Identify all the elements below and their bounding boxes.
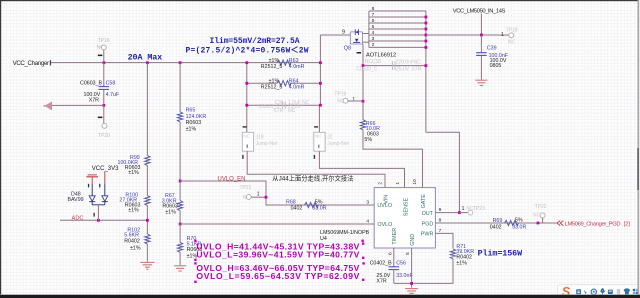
svg-text:R68: R68: [286, 199, 296, 205]
svg-text:Ilim=55mV/2mR=27.5A: Ilim=55mV/2mR=27.5A: [210, 37, 300, 46]
svg-text:8: 8: [372, 6, 375, 12]
toolbar icon: menu grid: [633, 289, 638, 294]
svg-text:R63: R63: [289, 58, 299, 64]
ground (C56/GND): [405, 289, 418, 294]
svg-text:0402: 0402: [291, 206, 303, 212]
svg-text:Plim=156W: Plim=156W: [478, 249, 523, 259]
svg-text:5: 5: [405, 252, 411, 255]
op-amp/controller U4 LM5069MM-1/NOPB: [320, 179, 459, 255]
svg-text:33.0R: 33.0R: [312, 206, 326, 212]
svg-text:LM5069MM-1/NOPB: LM5069MM-1/NOPB: [320, 230, 370, 236]
svg-text:C38: C38: [372, 59, 381, 65]
node: junction R63 left: [245, 61, 248, 64]
svg-text:1: 1: [257, 191, 260, 197]
wire: gate-source row (C38 site): [363, 65, 426, 67]
svg-text:X7R: X7R: [376, 278, 386, 284]
svg-text:NC: NC: [243, 134, 250, 139]
resistor R67: [162, 181, 183, 224]
svg-text:LM5069_Changer_PGD: LM5069_Changer_PGD: [565, 221, 621, 227]
wire: Q8 gate lead down: [362, 44, 364, 101]
svg-text:4.7uF: 4.7uF: [106, 92, 120, 98]
svg-text:TP22: TP22: [535, 204, 547, 210]
off-page connector LM5069_Changer_PGD: [557, 221, 630, 228]
node: junction UVLO_EN: [179, 180, 182, 183]
svg-text:P=(27.5/2)^2*4=0.756W＜2W: P=(27.5/2)^2*4=0.756W＜2W: [186, 46, 309, 56]
svg-text:PGD: PGD: [422, 221, 434, 227]
resistor R64 (4.0mR sense): [247, 78, 321, 90]
svg-text:J2: J2: [327, 135, 333, 141]
wire: ladder row pin8: [369, 10, 426, 12]
node: junction R99 top: [146, 61, 149, 64]
svg-text:25.0V: 25.0V: [396, 67, 410, 73]
resistor R102: [124, 227, 150, 261]
resistor R69: [490, 217, 527, 230]
svg-text:SENSE: SENSE: [403, 198, 409, 217]
svg-text:C58: C58: [106, 80, 116, 86]
pin number 1 (J2 inside, rotated): [318, 145, 319, 148]
svg-text:20A Max: 20A Max: [128, 53, 163, 63]
testpoint TP19: [334, 91, 363, 104]
capacitor C36 (NC, grey): [259, 100, 310, 114]
capacitor C56: [370, 248, 414, 284]
svg-text:UVLO: UVLO: [377, 203, 392, 209]
svg-text:NC: NC: [315, 134, 322, 139]
svg-text:OUT: OUT: [422, 211, 434, 217]
svg-text:C0402_B: C0402_B: [370, 261, 393, 267]
pin GND (5): [405, 234, 416, 255]
svg-text:UVLO_L=39.96V~41.59V TYP=40.77: UVLO_L=39.96V~41.59V TYP=40.77V: [196, 250, 359, 260]
testpoint TP16: [97, 38, 110, 63]
node: junction C36 row right: [319, 104, 322, 107]
wire: ladder row pin2: [369, 46, 426, 48]
node: junction ADC/R100-R102: [146, 219, 149, 222]
pin number 1 (Q8 gate, rotated): [357, 52, 361, 54]
svg-text:VCC_3V3: VCC_3V3: [92, 166, 119, 172]
node: junction VCC_LM5050/C39: [480, 34, 483, 37]
toolbar icon: skin shirt: [624, 288, 631, 294]
ground (R102): [140, 262, 154, 269]
wire: R66 to GATE: [363, 130, 423, 188]
svg-text:9: 9: [342, 30, 345, 36]
svg-text:1: 1: [352, 97, 355, 103]
wire: ladder row pin5: [369, 28, 426, 30]
svg-text:0402: 0402: [490, 224, 502, 230]
pin number 2 (J2 top, rotated): [314, 126, 318, 127]
svg-text:4.0mR: 4.0mR: [289, 64, 305, 70]
pin PGD (8): [422, 218, 442, 228]
svg-text:10: 10: [412, 179, 418, 185]
svg-text:±1%: ±1%: [186, 127, 197, 133]
capacitor C58: [80, 63, 120, 105]
node: junction TP19/R66: [362, 100, 365, 103]
wire: R71 bottom to gnd row: [394, 259, 453, 283]
svg-text:33.0R: 33.0R: [512, 224, 526, 230]
power port arrow (left): [45, 102, 52, 110]
wire: ladder left rail: [368, 11, 370, 47]
svg-text:124.0KR: 124.0KR: [186, 114, 207, 120]
svg-text:J18: J18: [256, 135, 264, 141]
node: junction C36 row left: [245, 104, 248, 107]
svg-text:2: 2: [378, 182, 384, 185]
svg-text:1: 1: [395, 182, 401, 185]
svg-text:±1%: ±1%: [456, 260, 467, 266]
svg-text:OVLO: OVLO: [377, 222, 392, 228]
resistor R99: [118, 63, 151, 195]
node: junction OUT/ladder: [458, 211, 461, 214]
node: junction R64 right: [319, 82, 322, 85]
wire: main VCC_Changer rail y=62.6: [51, 62, 321, 64]
pin SENSE (1): [395, 182, 409, 217]
svg-text:±1%: ±1%: [130, 246, 141, 252]
wire: J2 to SENSE: [319, 151, 404, 187]
svg-text:R64: R64: [289, 78, 299, 84]
frame/borders (decorative): [0, 0, 640, 1]
svg-text:7: 7: [372, 12, 375, 18]
svg-text:3: 3: [366, 200, 369, 206]
pin UVLO (3): [366, 200, 392, 210]
wire: UVLO_EN run: [180, 181, 366, 205]
svg-text:NC: NC: [414, 59, 422, 65]
svg-text:X7R: X7R: [89, 97, 99, 103]
svg-text:VCC_Changer: VCC_Changer: [13, 60, 49, 67]
node: junction C58 top: [103, 61, 106, 64]
wire: ladder row pin6: [369, 22, 426, 24]
svg-text:33.0nF: 33.0nF: [396, 273, 413, 279]
svg-text:TP20: TP20: [98, 133, 110, 139]
svg-text:4.0mR: 4.0mR: [289, 85, 305, 91]
svg-text:R2512_5: R2512_5: [261, 85, 283, 91]
wire: output to VCC_LM5050: [426, 34, 509, 36]
resistor R66: [360, 101, 422, 187]
svg-text:X7R: X7R: [274, 108, 284, 114]
svg-text:R0402: R0402: [124, 239, 140, 245]
svg-text:220.0nF: 220.0nF: [396, 59, 414, 65]
toolbar icon: clipboard: [617, 289, 620, 294]
wire: ladder row pin4 (main): [369, 34, 426, 36]
ground (C39): [475, 80, 487, 85]
pin GATE (10): [412, 179, 427, 208]
svg-text:Jump-Net: Jump-Net: [327, 141, 349, 147]
svg-text:NC: NC: [508, 40, 516, 46]
jumper J18 (NC): [242, 126, 385, 187]
svg-text:C0603_B: C0603_B: [80, 80, 103, 86]
svg-text:0805: 0805: [490, 63, 502, 69]
testpoint TP21: [240, 185, 268, 201]
node: junction C58 bottom: [102, 104, 105, 107]
pin PWR (7): [421, 228, 442, 238]
wire: OVLO net to U4: [180, 223, 366, 225]
diode D48 BAV99: [68, 184, 108, 221]
wire: PWR to R71: [435, 233, 453, 248]
pin number 1 (TP16, rotated): [98, 55, 103, 57]
wire: GND pin to ground: [411, 248, 413, 288]
svg-text:TIMER: TIMER: [392, 228, 398, 245]
svg-text:C56: C56: [396, 261, 406, 267]
wire: sense left rail x=246.8: [246, 63, 248, 133]
node: ladder junctions on right rail: [425, 16, 428, 49]
svg-text:1: 1: [462, 206, 465, 212]
svg-text:R65: R65: [186, 108, 196, 114]
testpoint TP20: [98, 106, 110, 139]
svg-text:2: 2: [372, 42, 375, 48]
node: junction TP21: [265, 196, 268, 199]
power symbol VCC_3V3: [86, 166, 119, 184]
pin TIMER (6): [387, 228, 398, 255]
toolbar icon: mode: [576, 289, 581, 294]
toolbar icon: globe: [591, 289, 596, 294]
transistor Q8 AOTL66912: [344, 29, 397, 101]
wire: sense right rail x=320: [319, 35, 320, 132]
svg-text:X7R: X7R: [412, 67, 422, 73]
svg-text:TP19: TP19: [334, 91, 346, 97]
node: selection handle dots (magenta): [194, 240, 365, 283]
capacitor C39: [476, 35, 509, 80]
ground (R70): [174, 266, 186, 271]
node: junction R64 left: [245, 82, 248, 85]
pin number 1 (J2 below, rotated): [314, 155, 315, 159]
wire: PGD row: [435, 222, 556, 224]
pin number 3 (D48, rotated): [94, 213, 95, 217]
svg-text:5: 5: [372, 24, 375, 30]
svg-text:5%: 5%: [364, 137, 372, 143]
wire: to left power arrow: [52, 104, 104, 106]
svg-text:R69: R69: [493, 218, 503, 224]
svg-text:5%: 5%: [315, 199, 323, 205]
toolbar icon: keyboard: [608, 290, 613, 294]
wire: Q8 body to rail joins: [363, 33, 369, 35]
testpoint TP18: [501, 27, 518, 45]
svg-text:[2]: [2]: [624, 221, 631, 227]
svg-text:4: 4: [366, 218, 369, 224]
svg-text:GATE: GATE: [421, 194, 427, 209]
svg-text:6: 6: [387, 252, 393, 255]
svg-text:OVLO_L=59.65~64.53V TYP=62.09: OVLO_L=59.65~64.53V TYP=62.09V: [196, 271, 359, 281]
svg-text:R2512_5: R2512_5: [261, 64, 283, 70]
svg-text:Q8: Q8: [344, 46, 351, 52]
pin number 1 (J18 top, rotated): [243, 126, 247, 127]
pin number 1 (D48, rotated): [88, 184, 89, 188]
testpoint TP23 (NC): [459, 206, 485, 215]
wire: J18 to VIN: [247, 151, 385, 187]
wire: C36 row: [247, 104, 321, 106]
resistor R100: [119, 192, 150, 234]
svg-text:±1%: ±1%: [128, 170, 139, 176]
pin number 2 (J18 below, rotated): [242, 155, 243, 159]
resistor R63 (4.0mR sense): [261, 58, 305, 70]
svg-text:C0603_C: C0603_C: [356, 67, 378, 73]
net VCC_Changer port: [13, 60, 52, 67]
jumper J2 (NC): [314, 126, 405, 187]
svg-text:5%: 5%: [515, 217, 523, 223]
toolbar icon: mic: [601, 289, 605, 295]
wire: ADC net: [60, 219, 147, 221]
wire: drain wire to Q8: [320, 34, 350, 36]
pin number 2 (D48, rotated): [99, 184, 100, 188]
node: junction ADC/D48: [97, 219, 100, 222]
pin OVLO (4): [366, 218, 393, 228]
resistor R68: [286, 199, 327, 211]
capacitor C38 (NC, grey): [356, 59, 422, 72]
svg-text:±1%: ±1%: [128, 208, 139, 214]
node: junction R65 top: [179, 61, 182, 64]
svg-text:4: 4: [372, 30, 375, 36]
testpoint TP22: [533, 204, 547, 223]
svg-text:NC: NC: [533, 212, 541, 218]
pin number 2 (J18 inside, rotated): [247, 145, 248, 148]
wire: ladder row pin3: [369, 40, 426, 42]
toolbar icon: pen: [584, 290, 587, 294]
svg-text:VCC_LM5050_IN_14S: VCC_LM5050_IN_14S: [453, 8, 506, 14]
wire: ladder to OUT (step): [426, 132, 460, 212]
svg-text:TP16: TP16: [98, 38, 110, 44]
resistor R70: [178, 224, 203, 265]
Q8 source/drain pin ladder: [363, 11, 426, 132]
svg-text:R0603: R0603: [186, 120, 202, 126]
svg-text:1: 1: [501, 32, 504, 38]
svg-text:GND: GND: [410, 234, 416, 246]
svg-text:BAV99: BAV99: [68, 197, 84, 203]
svg-text:C39: C39: [487, 45, 497, 51]
svg-text:从J44上面分走线,开尔文接法: 从J44上面分走线,开尔文接法: [272, 173, 353, 182]
resistor R65: [178, 63, 207, 181]
node: junction C38 row right: [425, 64, 428, 67]
svg-text:Jump-Net: Jump-Net: [256, 141, 278, 147]
svg-text:TP23: TP23: [473, 206, 485, 212]
wire: ladder right rail: [425, 11, 427, 132]
node: junction TP22/PGD: [537, 222, 540, 225]
node: junction OVLO divider: [179, 223, 182, 226]
svg-text:TP21: TP21: [240, 185, 252, 191]
wire: ladder row pin7: [369, 16, 426, 18]
resistor R71: [394, 244, 474, 284]
svg-text:±1%: ±1%: [165, 209, 176, 215]
Sogou input toolbar panel: [558, 285, 640, 298]
node: junction C38 row left: [362, 64, 365, 67]
svg-text:AOTL66912: AOTL66912: [366, 52, 396, 58]
svg-text:9: 9: [439, 207, 442, 213]
node: junction R63 right: [319, 61, 322, 64]
pin OUT (9): [422, 207, 460, 217]
net label VCC_LM5050_IN_14S: [453, 8, 506, 35]
svg-text:NC: NC: [288, 108, 296, 114]
annotation: UVLO/OVLO calc text (magenta): [196, 241, 359, 281]
svg-text:ADC: ADC: [72, 215, 84, 221]
pin VIN (2): [378, 182, 390, 204]
svg-text:PWR: PWR: [421, 232, 434, 238]
svg-text:3: 3: [372, 36, 375, 42]
node: junction gnd row: [410, 282, 413, 285]
svg-text:6: 6: [372, 18, 375, 24]
